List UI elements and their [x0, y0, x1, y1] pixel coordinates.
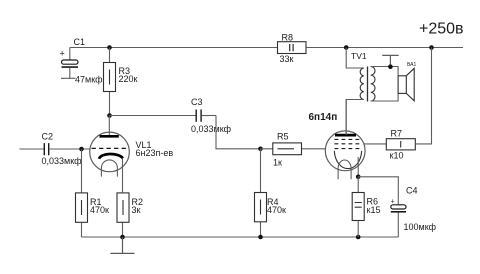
speaker BA1	[398, 68, 414, 101]
resistor R8	[278, 42, 307, 54]
svg-text:6п14п: 6п14п	[309, 112, 338, 123]
ground	[111, 237, 135, 253]
resistor R5	[261, 143, 326, 155]
svg-text:ВА1: ВА1	[407, 62, 417, 68]
svg-text:C3: C3	[191, 97, 203, 107]
junction grid node / R1	[79, 147, 84, 152]
svg-text:100мкф: 100мкф	[404, 222, 437, 232]
svg-text:47мкф: 47мкф	[75, 75, 103, 85]
junction top bus / R7 branch	[429, 45, 434, 50]
label R5	[273, 132, 289, 168]
resistor R3	[104, 48, 116, 116]
capacitor C2	[44, 143, 90, 155]
node +250V supply label	[419, 21, 464, 38]
value 100mkf	[404, 222, 437, 232]
label R6	[367, 197, 381, 216]
pentode VL2 6p14p	[325, 99, 365, 179]
resistor R6	[352, 177, 364, 237]
label R1	[90, 197, 109, 215]
svg-text:3к: 3к	[132, 205, 141, 215]
svg-text:R7: R7	[391, 129, 403, 139]
svg-text:+: +	[391, 199, 395, 206]
triode VL1	[90, 116, 130, 193]
value 47mkf	[75, 75, 103, 85]
transformer TV1 secondary	[371, 67, 398, 102]
resistor R2	[117, 193, 129, 237]
wire R3 junction to C3	[110, 115, 196, 117]
svg-text:470к: 470к	[267, 205, 286, 215]
svg-text:C1: C1	[74, 37, 86, 47]
junction top bus / TV1	[344, 45, 349, 50]
wire C3 to R5 node	[216, 116, 261, 149]
label C2	[42, 132, 54, 142]
junction R5 / R4	[258, 147, 263, 152]
junction secondary / ground / speaker	[388, 64, 393, 69]
capacitor C4	[391, 199, 407, 238]
resistor R7	[386, 48, 431, 150]
svg-text:R8: R8	[282, 33, 294, 43]
label R3	[119, 66, 138, 84]
junction top bus / R3	[107, 45, 112, 50]
resistor R4	[255, 149, 267, 237]
junction bottom bus / R6	[356, 235, 361, 240]
label TV1	[351, 51, 367, 61]
label 6p14p	[309, 112, 338, 123]
wire input	[20, 148, 44, 150]
transformer TV1 core	[367, 67, 369, 102]
label C3	[191, 97, 203, 107]
transformer TV1 primary	[346, 48, 364, 136]
junction bottom bus / R4	[258, 235, 263, 240]
svg-text:C4: C4	[406, 186, 418, 196]
label R2	[132, 197, 144, 215]
label R8	[280, 33, 294, 65]
resistor R1	[76, 149, 88, 237]
svg-text:470к: 470к	[90, 205, 109, 215]
svg-text:к15: к15	[367, 205, 381, 215]
svg-text:0,033мкф: 0,033мкф	[191, 124, 232, 134]
capacitor C3	[196, 110, 216, 122]
label R4	[267, 197, 286, 215]
junction R3 / VL1 anode / C3	[107, 113, 112, 118]
svg-text:220к: 220к	[119, 74, 138, 84]
wire cathode node to C4	[358, 177, 398, 205]
svg-text:TV1: TV1	[351, 51, 367, 61]
capacitor C1	[60, 48, 79, 79]
svg-text:+: +	[60, 49, 65, 59]
label C1	[74, 37, 86, 47]
value 0,033mkf	[191, 124, 232, 134]
label R7	[390, 129, 404, 161]
label C4	[406, 186, 418, 196]
svg-text:6н23п-ев: 6н23п-ев	[136, 148, 174, 158]
svg-text:33к: 33к	[280, 54, 294, 64]
value 0,033mkf	[42, 156, 83, 166]
label VL1	[136, 140, 174, 158]
wire top supply bus	[70, 47, 463, 49]
junction cathode / R6 / C4	[356, 175, 361, 180]
svg-text:0,033мкф: 0,033мкф	[42, 156, 83, 166]
wire bottom bus	[82, 236, 399, 238]
svg-text:+250в: +250в	[419, 21, 464, 38]
svg-text:1к: 1к	[273, 158, 282, 168]
ground at speaker	[382, 55, 399, 66]
wire R5 to control grid drawn above; wire screen grid to R7	[364, 143, 386, 145]
junction bottom bus / R2 / ground	[120, 235, 125, 240]
svg-text:R5: R5	[277, 132, 289, 142]
svg-text:C2: C2	[42, 132, 54, 142]
label BA1	[407, 62, 417, 68]
svg-text:к10: к10	[390, 151, 404, 161]
